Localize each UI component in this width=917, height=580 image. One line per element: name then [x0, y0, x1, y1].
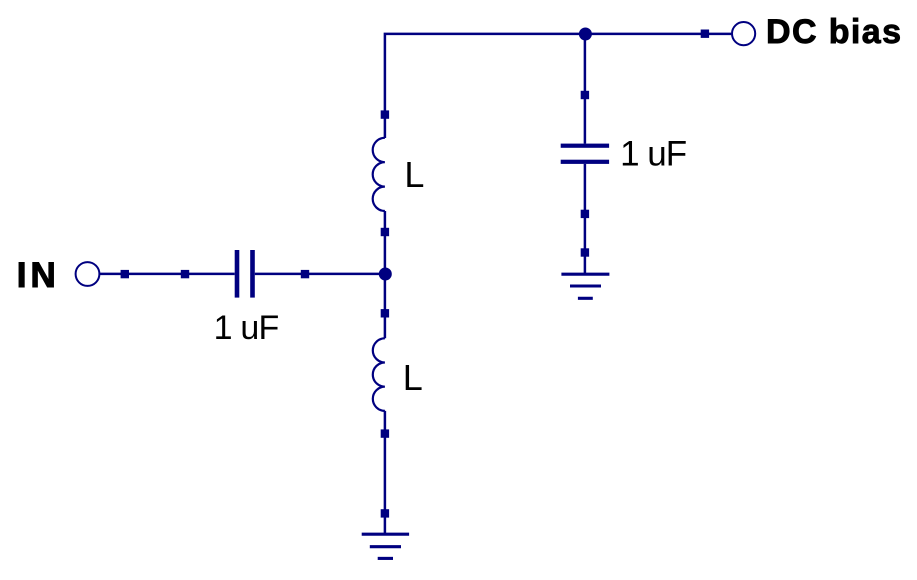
svg-text:1 uF: 1 uF	[620, 134, 686, 173]
svg-text:L: L	[404, 154, 424, 195]
svg-text:DC bias: DC bias	[766, 13, 902, 51]
svg-text:1 uF: 1 uF	[214, 309, 279, 347]
svg-text:L: L	[403, 357, 423, 398]
svg-text:IN: IN	[17, 256, 60, 295]
